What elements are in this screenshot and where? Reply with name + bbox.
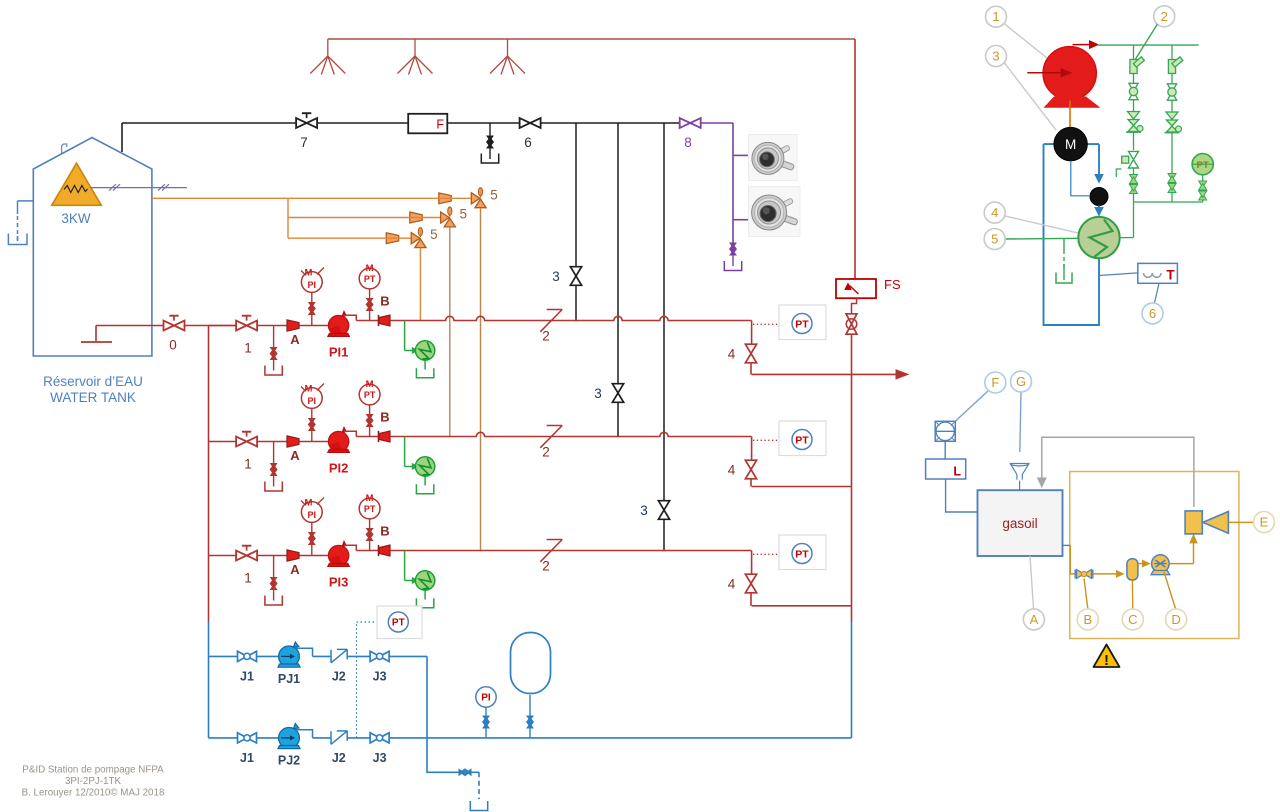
svg-text:PI: PI xyxy=(308,280,317,290)
svg-text:J1: J1 xyxy=(240,669,254,683)
svg-text:5: 5 xyxy=(430,227,438,242)
svg-text:PJ2: PJ2 xyxy=(278,753,300,767)
svg-text:5: 5 xyxy=(991,232,998,247)
svg-text:!: ! xyxy=(1104,652,1109,669)
svg-text:A: A xyxy=(290,562,300,577)
svg-text:E: E xyxy=(1260,515,1269,530)
svg-text:3: 3 xyxy=(640,503,648,518)
svg-text:gasoil: gasoil xyxy=(1002,516,1037,531)
svg-text:PI1: PI1 xyxy=(329,345,349,360)
svg-text:PT: PT xyxy=(795,548,809,560)
svg-text:PT: PT xyxy=(364,274,376,284)
svg-text:A: A xyxy=(290,332,300,347)
svg-text:M: M xyxy=(305,384,313,395)
svg-text:B: B xyxy=(380,294,389,309)
svg-text:G: G xyxy=(1016,374,1026,389)
svg-text:J3: J3 xyxy=(373,751,387,765)
svg-text:3: 3 xyxy=(552,269,560,284)
svg-text:3KW: 3KW xyxy=(61,211,91,226)
svg-text:J2: J2 xyxy=(332,669,346,683)
svg-text:PT: PT xyxy=(795,318,809,330)
svg-text:M: M xyxy=(366,263,374,274)
svg-text:L: L xyxy=(953,465,961,479)
svg-text:5: 5 xyxy=(490,187,498,202)
svg-text:PT: PT xyxy=(795,434,809,446)
svg-text:7: 7 xyxy=(300,135,308,150)
svg-text:3: 3 xyxy=(992,49,999,64)
svg-text:PI: PI xyxy=(308,510,317,520)
svg-text:J3: J3 xyxy=(373,669,387,683)
svg-text:M: M xyxy=(1065,137,1076,152)
svg-text:6: 6 xyxy=(524,135,532,150)
svg-text:1: 1 xyxy=(992,9,999,24)
svg-text:Réservoir d’EAU: Réservoir d’EAU xyxy=(43,374,143,389)
svg-text:A: A xyxy=(290,448,300,463)
svg-text:4: 4 xyxy=(728,577,736,592)
svg-text:4: 4 xyxy=(991,205,998,220)
svg-text:PI: PI xyxy=(481,693,491,704)
svg-text:J1: J1 xyxy=(240,751,254,765)
svg-text:B: B xyxy=(380,410,389,425)
svg-text:T: T xyxy=(1166,268,1175,283)
svg-text:A: A xyxy=(1030,612,1039,627)
svg-text:F: F xyxy=(436,118,444,132)
svg-text:PT: PT xyxy=(1197,160,1209,171)
svg-text:6: 6 xyxy=(1149,306,1156,321)
svg-text:P&ID Station de pompage NFPA: P&ID Station de pompage NFPA xyxy=(22,765,164,776)
svg-text:J2: J2 xyxy=(332,751,346,765)
svg-text:4: 4 xyxy=(728,347,736,362)
svg-text:2: 2 xyxy=(542,445,550,460)
svg-text:PI: PI xyxy=(308,396,317,406)
svg-text:1: 1 xyxy=(244,341,252,356)
svg-text:PJ1: PJ1 xyxy=(278,672,300,686)
svg-text:C: C xyxy=(1128,612,1137,627)
svg-text:PT: PT xyxy=(364,390,376,400)
svg-text:B. Lerouyer 12/2010© MAJ 2018: B. Lerouyer 12/2010© MAJ 2018 xyxy=(22,788,165,799)
svg-text:F: F xyxy=(991,375,999,390)
svg-text:M: M xyxy=(366,379,374,390)
svg-text:PI3: PI3 xyxy=(329,575,349,590)
svg-text:B: B xyxy=(380,524,389,539)
svg-text:8: 8 xyxy=(684,135,692,150)
svg-text:1: 1 xyxy=(244,457,252,472)
svg-text:PT: PT xyxy=(392,618,405,629)
svg-text:PI2: PI2 xyxy=(329,461,349,476)
svg-text:2: 2 xyxy=(1161,9,1168,24)
svg-text:0: 0 xyxy=(169,338,177,353)
svg-text:2: 2 xyxy=(542,559,550,574)
svg-text:2: 2 xyxy=(542,329,550,344)
svg-text:D: D xyxy=(1171,612,1180,627)
svg-text:B: B xyxy=(1083,612,1092,627)
svg-text:M: M xyxy=(366,493,374,504)
svg-text:WATER TANK: WATER TANK xyxy=(50,390,136,405)
svg-text:M: M xyxy=(305,498,313,509)
svg-text:4: 4 xyxy=(728,463,736,478)
svg-text:1: 1 xyxy=(244,571,252,586)
svg-text:3PI-2PJ-1TK: 3PI-2PJ-1TK xyxy=(65,776,122,787)
svg-text:5: 5 xyxy=(460,207,468,222)
svg-text:3: 3 xyxy=(594,386,602,401)
svg-text:PT: PT xyxy=(364,504,376,514)
svg-text:M: M xyxy=(305,268,313,279)
svg-text:FS: FS xyxy=(884,277,901,292)
